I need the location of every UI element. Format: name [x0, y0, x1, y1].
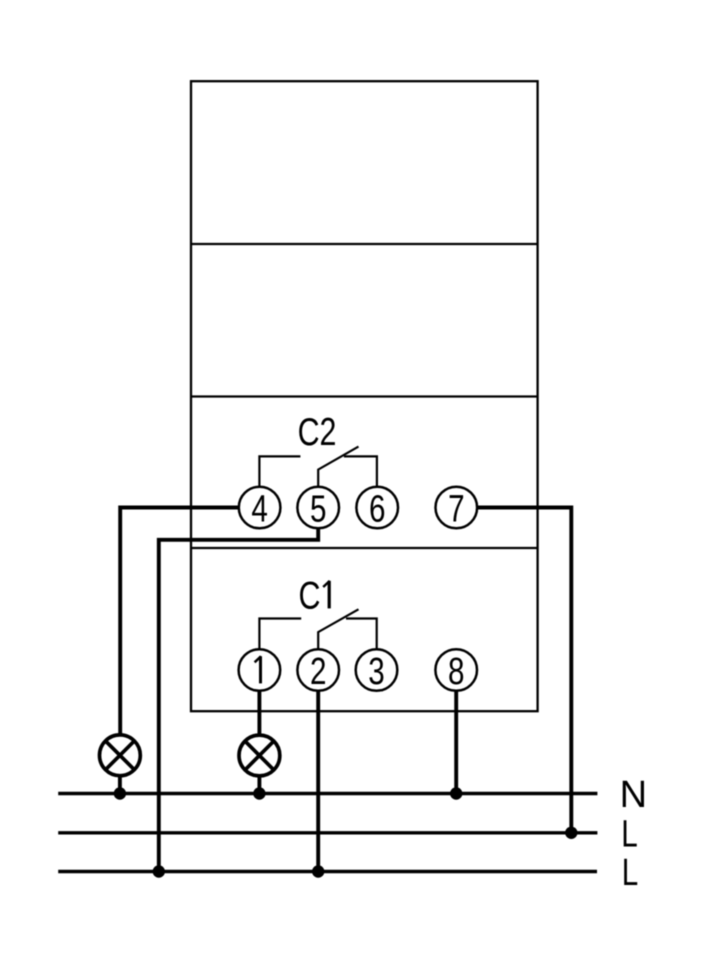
svg-text:2: 2 [310, 650, 326, 692]
svg-text:C: C [299, 574, 321, 617]
svg-text:3: 3 [368, 650, 384, 692]
svg-text:L: L [622, 852, 638, 894]
svg-text:C2: C2 [298, 410, 337, 453]
svg-text:7: 7 [448, 488, 464, 530]
svg-text:L: L [621, 813, 637, 855]
svg-text:8: 8 [448, 650, 464, 692]
svg-text:5: 5 [310, 488, 326, 530]
svg-text:6: 6 [369, 488, 385, 530]
svg-text:N: N [620, 774, 647, 816]
svg-text:4: 4 [251, 488, 267, 530]
